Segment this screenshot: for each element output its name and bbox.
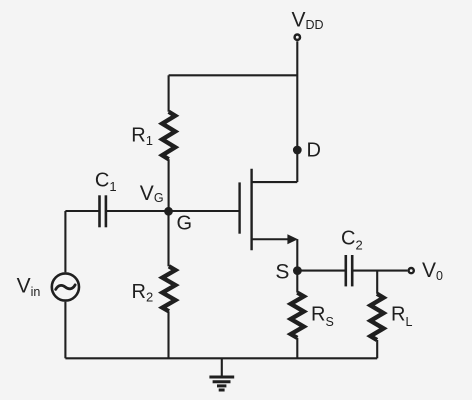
resistor RL — [371, 294, 384, 340]
transistor Q1 MOSFET channel bar — [250, 169, 252, 250]
terminal VDD open circle — [295, 35, 300, 40]
svg-text:S: S — [275, 261, 289, 284]
wire RL bottom lead — [376, 340, 378, 358]
source Vin AC circle — [52, 273, 79, 300]
wire S node to C2 left plate — [297, 270, 345, 272]
wire Vin top lead — [64, 211, 66, 272]
resistor RS — [291, 293, 304, 338]
wire VG node down to R2 top — [167, 211, 169, 266]
node S junction dot — [293, 266, 302, 275]
wire top rail — [169, 74, 298, 76]
node D junction dot — [293, 146, 302, 155]
wire Vin bottom lead — [64, 302, 66, 359]
ground — [209, 377, 234, 390]
wire source down to S node — [296, 239, 298, 270]
transistor Q1 MOSFET gate bar — [238, 182, 240, 233]
wire C1 right plate to VG node — [106, 210, 169, 212]
wire R2 bottom lead — [167, 311, 169, 358]
wire bottom rail — [65, 357, 377, 359]
svg-text:D: D — [307, 140, 321, 162]
source Vin sine wave — [56, 285, 75, 290]
wire R1 top lead — [168, 75, 170, 111]
terminal V0 open circle — [409, 268, 414, 273]
ground stub — [221, 358, 223, 376]
wire S node down to RS top — [296, 271, 298, 293]
wire junction down to RL top — [376, 271, 378, 294]
wire gate lead VG node to gate bar — [169, 210, 240, 212]
wire RS bottom lead — [296, 338, 298, 358]
capacitor C1 — [100, 195, 106, 227]
wire VDD rail down to drain — [296, 41, 298, 182]
wire drain horizontal to channel — [252, 181, 298, 183]
capacitor C2 — [346, 255, 352, 286]
transistor Q1 source lead with arrow — [252, 238, 290, 240]
node VG junction dot — [164, 207, 173, 216]
resistor R2 — [162, 266, 175, 311]
svg-text:G: G — [177, 213, 193, 235]
wire R1 bottom to VG node — [168, 159, 170, 211]
wire Vin to C1 left plate — [65, 210, 99, 212]
resistor R1 — [162, 112, 175, 160]
wire C2 right plate to V0 terminal — [352, 270, 407, 272]
